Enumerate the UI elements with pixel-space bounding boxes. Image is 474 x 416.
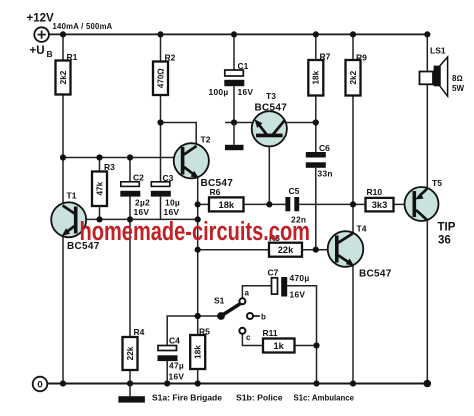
label R3 [104,162,115,172]
wire T1 emitter to 0V rail [62,235,64,384]
svg-text:BC547: BC547 [359,269,392,280]
junction bottom rail / C4 [164,380,170,386]
junction bottom rail / T5 collector [424,380,432,388]
label T2 [201,135,211,145]
junction top rail / R1 [60,31,66,37]
svg-text:33n: 33n [318,169,333,179]
svg-text:BC547: BC547 [201,178,234,189]
svg-text:+U: +U [30,45,45,57]
label caption S1a S1b S1c [152,394,355,403]
wire C4 bottom lead [166,361,168,384]
junction top rail / R2 [157,31,163,37]
svg-text:a: a [245,289,250,298]
junction R2 bottom / T2 collector / C3 [157,119,163,125]
svg-text:2k2: 2k2 [349,70,358,84]
resistor R7 [308,60,323,96]
svg-text:C1: C1 [238,61,249,71]
svg-text:3k3: 3k3 [372,200,388,210]
label C7 [268,268,279,278]
label T4 [357,224,367,234]
label R11 [263,328,278,338]
wire R7 bottom lead to node [315,96,317,123]
junction R3 top [96,154,102,160]
switch contact a [239,298,245,304]
label R8 [269,233,280,243]
junction bottom rail / T1 emitter [60,380,66,386]
svg-text:R5: R5 [199,327,210,337]
junction bottom rail / C7-R11 column [313,380,319,386]
wire T4 emitter to 0V rail [352,265,354,384]
label 140mA / 500mA [53,21,113,31]
junction bottom rail / R4 / ground [127,380,133,386]
wire R9 bottom to T4 collector [352,96,354,233]
svg-text:T4: T4 [357,224,367,234]
junction bottom rail / T4 emitter [350,380,356,386]
label R5 [199,327,210,337]
junction C2 bottom / R4 top [127,216,133,222]
watermark homemade-circuits.com [80,218,311,246]
ground symbol (below C1 / T3 emitter) [225,123,244,151]
resistor R6 [209,197,244,211]
svg-text:18k: 18k [312,70,321,84]
label C6 value [318,169,333,179]
wire C1 top lead from rail [233,34,235,70]
svg-text:22k: 22k [278,245,294,255]
svg-text:10µ: 10µ [165,198,180,208]
capacitor C1 [224,70,244,86]
svg-text:140mA / 500mA: 140mA / 500mA [53,21,113,31]
svg-text:T1: T1 [67,191,77,201]
label C4 [169,336,180,346]
svg-text:2k2: 2k2 [59,70,68,84]
label T5 [432,178,442,188]
label C3 value [164,198,181,218]
label R6 [210,187,221,197]
svg-text:c: c [246,333,251,342]
svg-text:18k: 18k [194,345,203,359]
svg-text:C6: C6 [319,143,330,153]
junction top rail / R7 [313,31,319,37]
svg-text:C7: C7 [268,268,279,278]
svg-text:BC547: BC547 [255,103,288,114]
resistor R2 [153,62,168,96]
label +12V [27,13,55,25]
label C6 [319,143,330,153]
svg-text:18k: 18k [219,200,235,210]
svg-text:T2: T2 [201,135,211,145]
wire C2 bottom lead / R4 top lead [129,197,131,337]
svg-text:16V: 16V [169,372,185,382]
svg-text:22k: 22k [126,346,135,360]
svg-text:B: B [47,49,53,59]
label C5 [289,186,300,196]
transistor T5 [405,187,439,221]
svg-text:16V: 16V [238,87,254,97]
wire contact c to R11 [242,334,263,346]
label C2 [133,173,144,183]
label T3 [266,91,276,101]
svg-text:16V: 16V [164,207,180,217]
junction top rail / C1 [231,31,237,37]
svg-text:0: 0 [37,380,42,391]
wire R3 bottom lead [99,206,101,219]
switch S1 pole [217,304,240,320]
svg-text:2µ2: 2µ2 [135,198,150,208]
junction R3 bottom / T1 base row [96,216,102,222]
label R4 [134,327,145,337]
wire top supply rail [49,33,428,35]
label C3 [163,173,174,183]
junction R1 bottom / T2 base row [60,154,66,160]
wire R1 column (top rail to T1 collector) [62,34,64,205]
label C2 value [134,198,151,218]
svg-text:36: 36 [438,235,451,247]
label C7 value [290,273,310,300]
transistor T2 [174,143,209,178]
junction T1 base row / T2 emitter column [195,216,201,222]
label contact c [246,333,251,342]
svg-text:47µ: 47µ [169,361,184,371]
junction C2 top [127,154,133,160]
wire C1 bottom to T3 emitter node [233,86,235,122]
svg-text:R4: R4 [134,327,145,337]
capacitor C5 [285,197,299,211]
label T4 BC547 [359,269,392,280]
resistor R4 [123,337,138,370]
label R9 [356,53,367,63]
junction R9 / T4 collector / tone row [350,201,356,207]
label C4 value [169,361,185,382]
resistor R9 [346,60,361,96]
junction R8 left / T2 emitter column [195,247,201,253]
svg-text:S1b: Police: S1b: Police [236,394,283,403]
wire node row T1 base / R3 / C2 / C3 [78,218,198,220]
label contact a [245,289,250,298]
capacitor C4 [158,346,178,362]
svg-text:homemade-circuits.com: homemade-circuits.com [80,218,311,246]
svg-text:16V: 16V [290,290,306,300]
wire R4 bottom lead [129,370,131,384]
label LS1 [430,46,446,56]
svg-text:S1c: Ambulance: S1c: Ambulance [294,394,355,403]
switch contact b [247,313,253,319]
svg-text:R7: R7 [320,52,331,62]
wire R2 node down to C3 top [160,123,162,182]
switch contact c [239,328,245,334]
transistor T1 [51,202,86,237]
junction bottom rail / R5 [195,380,201,386]
label T3 BC547 [255,103,288,114]
label +UB [30,45,53,59]
wire contact b stub [253,315,260,317]
wire T2 emitter column down to R5 [197,178,199,335]
wire S1 pole row to C4 [167,316,221,346]
wire C6 top lead [315,123,317,153]
label T1 [67,191,77,201]
label R2 [165,53,176,63]
wire R8 row to T4 base [198,249,336,251]
svg-text:S1a: Fire Brigade: S1a: Fire Brigade [152,394,223,403]
terminal +UB (+12V supply) [34,27,49,42]
svg-text:S1: S1 [214,296,225,306]
wire C7 right to R11 node and 0V rail [287,286,316,384]
svg-text:TIP: TIP [438,222,456,234]
loudspeaker LS1 [420,57,448,96]
svg-text:T3: T3 [266,91,276,101]
resistor R10 [366,198,394,212]
junction top rail / LS1 [424,31,430,37]
junction S1 pole row / T2 emitter column [195,313,201,319]
label R1 [67,52,78,62]
wire R11 right to node [295,345,317,347]
wire C2 top lead [129,158,131,182]
svg-text:R10: R10 [367,187,383,197]
label S1 [214,296,225,306]
svg-text:100µ: 100µ [209,87,229,97]
svg-text:LS1: LS1 [430,46,446,56]
wire tone row R6 C5 R10 [198,203,405,205]
junction T3 base / tone row [266,201,272,207]
svg-text:b: b [261,313,266,322]
transistor T3 [252,111,287,146]
wire R5 bottom lead [197,369,199,384]
wire R2 bottom to node [160,95,162,123]
resistor R8 [269,243,302,257]
wire node row R1 / R3 / C2 / T2 base [63,157,182,159]
resistor R5 [190,335,205,369]
capacitor C3 [151,182,171,197]
label R10 [367,187,383,197]
label T2 BC547 [201,178,234,189]
label T5 TIP36 [438,222,456,247]
label C1 [238,61,249,71]
wire T3 collector to R7/C6 node [285,122,316,124]
wire R2 column from top rail [160,34,162,61]
svg-text:C5: C5 [289,186,300,196]
svg-text:R2: R2 [165,53,176,63]
junction R8 right / C6 bottom / T4 base [313,247,319,253]
wire C6 bottom to R8/T4 base node [315,168,317,250]
svg-text:T5: T5 [432,178,442,188]
svg-text:R1: R1 [67,52,78,62]
ground symbol (below 0V rail at R4) [118,384,144,403]
svg-text:C2: C2 [133,173,144,183]
resistor R1 [56,61,71,95]
junction R6 left / T2 emitter column [195,201,201,207]
resistor R3 [92,172,107,207]
svg-text:R11: R11 [263,328,278,338]
wire R3 top lead [99,158,101,172]
label C1 value [209,87,254,97]
label contact b [261,313,266,322]
svg-text:5W: 5W [452,84,464,93]
wire T3 base down to tone row [268,137,270,204]
capacitor C6 [306,152,326,168]
label R7 [320,52,331,62]
wire C3 bottom to T1 base row [160,197,162,220]
svg-text:470Ω: 470Ω [156,68,165,88]
wire contact a up to C7 row [242,286,271,299]
terminal 0V [33,377,48,392]
resistor R11 [263,339,295,353]
transistor T4 [328,231,364,267]
svg-text:47k: 47k [95,181,104,195]
junction C1 bottom / T3 emitter / ground [231,119,237,125]
label T1 BC547 [67,241,100,252]
junction R11 right / C7 column [313,342,319,348]
wire R7 top lead [315,34,317,60]
svg-text:1k: 1k [274,341,285,351]
junction top rail / R9 [350,31,356,37]
svg-text:+12V: +12V [27,13,55,25]
wire speaker column / T5 collector [426,34,428,383]
svg-text:C4: C4 [169,336,180,346]
svg-text:R3: R3 [104,162,115,172]
svg-text:470µ: 470µ [290,273,310,283]
wire T3 emitter horizontal [225,122,254,124]
label LS1 value [452,74,464,93]
wire R9 top lead [352,34,354,60]
svg-text:C3: C3 [163,173,174,183]
capacitor C2 [120,182,140,197]
junction T3 collector / R7 / C6 [313,119,319,125]
label C5 value [291,215,306,225]
svg-text:R9: R9 [356,53,367,63]
wire bottom 0V rail [47,383,427,385]
wire R2 node to T2 collector [161,123,197,146]
capacitor C7 [272,277,288,297]
svg-text:16V: 16V [134,207,150,217]
svg-text:8Ω: 8Ω [452,74,463,83]
